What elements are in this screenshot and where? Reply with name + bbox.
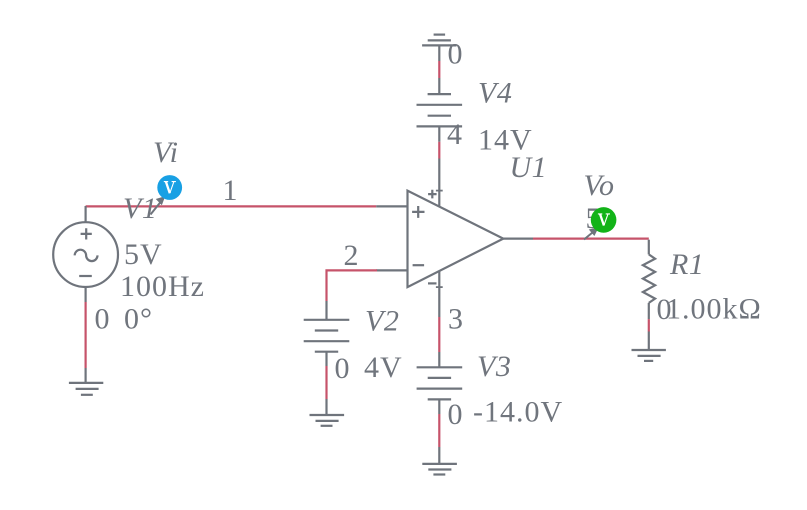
svg-text:-14.0V: -14.0V (473, 396, 563, 429)
battery V4 (417, 78, 463, 142)
wire node 0 (V2 to ground) (325, 366, 327, 399)
svg-text:0°: 0° (124, 303, 153, 336)
wire node 1 (V1 top to U1 + input) (86, 205, 408, 207)
svg-text:1.00kΩ: 1.00kΩ (666, 293, 762, 326)
svg-text:2: 2 (344, 239, 360, 272)
probe Vi needle (151, 197, 165, 215)
svg-text:R1: R1 (669, 248, 704, 281)
wire node 0 (V1 to ground) (84, 302, 86, 368)
svg-text:0: 0 (448, 398, 464, 431)
svg-text:Vi: Vi (153, 136, 178, 169)
resistor R1 (643, 254, 655, 319)
svg-text:V1: V1 (123, 192, 157, 225)
svg-text:1: 1 (223, 174, 239, 207)
op-amp U1 (408, 159, 534, 318)
svg-text:V3: V3 (477, 350, 511, 383)
svg-text:V2: V2 (365, 305, 399, 338)
battery V3 (417, 352, 463, 414)
wire node 3 (U1 V- to V3) (438, 317, 440, 352)
wire node 5 (U1 output to R1) (533, 239, 649, 255)
wire node 0 (V3 to ground) (438, 414, 440, 447)
wire node 0 (top ground to V4) (438, 61, 440, 78)
battery V2 (304, 301, 350, 366)
voltage source V1 (AC, pins) (53, 206, 118, 302)
svg-text:Vo: Vo (584, 169, 615, 202)
svg-text:4: 4 (447, 118, 463, 151)
ground (V4, inverted at top) (422, 35, 456, 61)
svg-text:0: 0 (448, 38, 464, 71)
ground (V1) (69, 368, 103, 395)
svg-text:0: 0 (335, 352, 351, 385)
wire node 0 (R1 to ground) (648, 319, 650, 331)
svg-text:100Hz: 100Hz (120, 270, 205, 303)
svg-text:3: 3 (448, 303, 464, 336)
svg-text:V4: V4 (478, 77, 512, 110)
ground (V2) (310, 399, 345, 426)
ground (R1) (632, 332, 666, 361)
probe Vo (green) (591, 207, 617, 233)
svg-text:14V: 14V (478, 124, 533, 157)
svg-text:4V: 4V (364, 351, 403, 384)
svg-text:0: 0 (95, 303, 111, 336)
svg-text:5V: 5V (124, 238, 163, 271)
probe Vi (blue) (157, 175, 182, 200)
ground (V3) (422, 447, 457, 475)
wire node 2 (V2 to U1 - input) (327, 270, 408, 301)
probe Vo needle (584, 228, 598, 240)
svg-text:0: 0 (657, 293, 673, 326)
wire node 4 (V4 to U1 V+) (438, 142, 440, 159)
